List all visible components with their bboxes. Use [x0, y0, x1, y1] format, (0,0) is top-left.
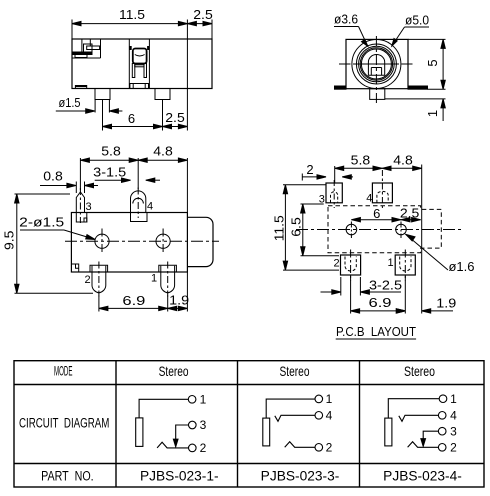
svg-text:0.8: 0.8	[43, 169, 63, 184]
svg-text:2: 2	[450, 441, 457, 455]
svg-text:11.5: 11.5	[119, 7, 145, 22]
svg-text:ø5.0: ø5.0	[405, 13, 429, 28]
svg-text:6: 6	[128, 111, 135, 126]
svg-text:CIRCUIT DIAGRAM: CIRCUIT DIAGRAM	[19, 416, 110, 431]
svg-text:3: 3	[200, 418, 207, 432]
svg-text:3-1.5: 3-1.5	[93, 165, 126, 180]
svg-text:2.5: 2.5	[400, 206, 420, 221]
svg-text:2: 2	[334, 258, 340, 270]
svg-text:1: 1	[425, 110, 440, 117]
svg-text:5.8: 5.8	[101, 144, 121, 159]
svg-text:1: 1	[326, 392, 333, 406]
svg-text:9.5: 9.5	[2, 231, 17, 251]
svg-text:4.8: 4.8	[393, 153, 413, 168]
svg-text:MODE: MODE	[54, 363, 73, 379]
svg-text:2: 2	[326, 441, 333, 455]
svg-text:2: 2	[306, 162, 313, 177]
svg-text:Stereo: Stereo	[159, 363, 189, 379]
svg-text:5: 5	[425, 59, 440, 66]
svg-text:3: 3	[450, 424, 457, 438]
svg-text:1: 1	[200, 393, 207, 407]
svg-text:ø1.6: ø1.6	[449, 259, 475, 274]
svg-text:2.5: 2.5	[193, 7, 213, 22]
svg-text:1.9: 1.9	[436, 296, 456, 311]
svg-text:4: 4	[147, 201, 153, 213]
svg-text:6.9: 6.9	[122, 293, 145, 308]
svg-text:4: 4	[326, 409, 333, 423]
svg-text:4.8: 4.8	[153, 144, 173, 159]
svg-text:3-2.5: 3-2.5	[369, 278, 402, 293]
svg-text:Stereo: Stereo	[404, 363, 435, 379]
svg-text:1.9: 1.9	[169, 293, 189, 308]
svg-text:4: 4	[450, 409, 457, 423]
svg-text:PJBS-023-3-: PJBS-023-3-	[261, 469, 340, 484]
svg-text:5.8: 5.8	[351, 153, 371, 168]
svg-text:2.5: 2.5	[165, 110, 185, 125]
svg-text:11.5: 11.5	[272, 215, 287, 241]
svg-text:6.9: 6.9	[369, 295, 392, 310]
svg-text:PJBS-023-4-: PJBS-023-4-	[383, 469, 462, 484]
svg-text:ø1.5: ø1.5	[59, 95, 81, 110]
svg-text:3: 3	[85, 201, 91, 213]
svg-text:6.5: 6.5	[289, 217, 304, 237]
svg-text:1: 1	[151, 273, 157, 285]
svg-text:ø3.6: ø3.6	[334, 12, 358, 27]
svg-text:1: 1	[450, 392, 457, 406]
svg-text:2: 2	[200, 441, 207, 455]
svg-text:PJBS-023-1-: PJBS-023-1-	[140, 469, 219, 484]
svg-text:2: 2	[84, 274, 90, 286]
svg-text:6: 6	[373, 206, 380, 221]
svg-text:2-ø1.5: 2-ø1.5	[19, 215, 64, 230]
svg-text:1: 1	[388, 257, 394, 269]
svg-text:4: 4	[366, 193, 372, 205]
svg-text:Stereo: Stereo	[280, 363, 310, 379]
svg-text:P.C.B LAYOUT: P.C.B LAYOUT	[336, 324, 416, 339]
svg-text:PART NO.: PART NO.	[41, 469, 94, 484]
